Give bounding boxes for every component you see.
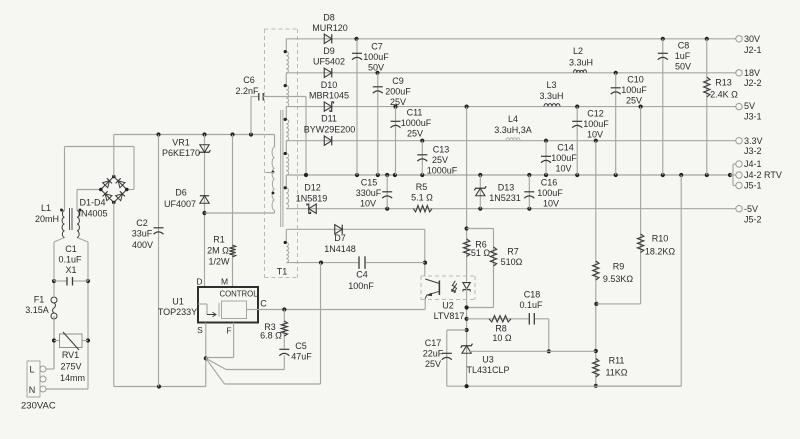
svg-text:3.3uH: 3.3uH xyxy=(569,58,593,68)
svg-text:S: S xyxy=(197,325,203,335)
svg-text:14mm: 14mm xyxy=(60,373,85,383)
svg-text:1N4148: 1N4148 xyxy=(324,244,356,254)
svg-text:RV1: RV1 xyxy=(62,350,79,360)
svg-text:25V: 25V xyxy=(390,97,406,107)
svg-text:0.1uF: 0.1uF xyxy=(58,255,82,265)
svg-text:C2: C2 xyxy=(136,218,148,228)
svg-text:LTV817: LTV817 xyxy=(434,311,465,321)
svg-text:J2-2: J2-2 xyxy=(744,78,762,88)
svg-text:D11: D11 xyxy=(321,114,337,124)
svg-text:9.53KΩ: 9.53KΩ xyxy=(603,274,634,284)
svg-text:C15: C15 xyxy=(361,178,378,188)
svg-text:100uF: 100uF xyxy=(363,52,389,62)
svg-text:L: L xyxy=(29,365,34,375)
svg-text:L3: L3 xyxy=(546,80,556,90)
svg-text:D9: D9 xyxy=(323,46,335,56)
svg-text:C11: C11 xyxy=(407,108,423,118)
svg-text:10V: 10V xyxy=(555,164,571,174)
svg-text:100uF: 100uF xyxy=(621,85,647,95)
svg-text:5.1 Ω: 5.1 Ω xyxy=(411,193,433,203)
svg-text:C13: C13 xyxy=(433,145,450,155)
svg-text:C16: C16 xyxy=(541,178,558,188)
svg-text:100uF: 100uF xyxy=(583,119,609,129)
svg-text:UF5402: UF5402 xyxy=(313,57,345,67)
svg-text:MUR120: MUR120 xyxy=(312,23,348,33)
svg-text:R5: R5 xyxy=(416,182,428,192)
svg-text:11KΩ: 11KΩ xyxy=(605,368,627,378)
svg-text:D13: D13 xyxy=(498,183,515,193)
svg-text:L2: L2 xyxy=(573,46,583,56)
svg-text:J4-1: J4-1 xyxy=(744,159,762,169)
svg-text:10V: 10V xyxy=(587,130,603,140)
svg-text:30V: 30V xyxy=(744,34,760,44)
svg-text:1N5819: 1N5819 xyxy=(296,194,328,204)
svg-text:-5V: -5V xyxy=(744,204,758,214)
svg-text:C18: C18 xyxy=(524,290,541,300)
svg-text:51 Ω: 51 Ω xyxy=(471,248,491,258)
svg-text:1000uF: 1000uF xyxy=(427,166,458,176)
svg-text:C9: C9 xyxy=(392,76,404,86)
svg-text:BYW29E200: BYW29E200 xyxy=(304,125,356,135)
svg-text:275V: 275V xyxy=(60,362,81,372)
svg-text:R9: R9 xyxy=(613,262,625,272)
svg-text:18V: 18V xyxy=(744,68,760,78)
svg-text:TL431CLP: TL431CLP xyxy=(466,365,509,375)
svg-text:L4: L4 xyxy=(508,114,518,124)
svg-text:100uF: 100uF xyxy=(537,188,563,198)
svg-text:18.2KΩ: 18.2KΩ xyxy=(645,247,676,257)
svg-text:D7: D7 xyxy=(334,233,346,243)
svg-text:50V: 50V xyxy=(675,62,691,72)
svg-text:IN4005: IN4005 xyxy=(78,209,107,219)
svg-text:R10: R10 xyxy=(652,234,669,244)
svg-text:F1: F1 xyxy=(34,295,45,305)
svg-text:0.1uF: 0.1uF xyxy=(519,300,543,310)
svg-text:D12: D12 xyxy=(304,183,321,193)
svg-text:C8: C8 xyxy=(678,41,690,51)
svg-text:3.15A: 3.15A xyxy=(25,305,49,315)
svg-text:T1: T1 xyxy=(277,267,288,277)
svg-text:X1: X1 xyxy=(65,265,76,275)
svg-text:TOP233Y: TOP233Y xyxy=(158,307,197,317)
svg-text:J2-1: J2-1 xyxy=(744,45,762,55)
svg-text:3.3uH,3A: 3.3uH,3A xyxy=(494,125,532,135)
svg-text:N: N xyxy=(29,385,36,395)
svg-text:P6KE170: P6KE170 xyxy=(162,148,200,158)
svg-text:J3-1: J3-1 xyxy=(744,112,762,122)
svg-text:100uF: 100uF xyxy=(551,153,577,163)
svg-text:100nF: 100nF xyxy=(348,281,374,291)
svg-text:C6: C6 xyxy=(243,75,255,85)
svg-text:10 Ω: 10 Ω xyxy=(492,333,512,343)
svg-text:R11: R11 xyxy=(609,356,625,366)
svg-text:C7: C7 xyxy=(371,42,383,52)
svg-text:3.3V: 3.3V xyxy=(744,136,763,146)
svg-text:D6: D6 xyxy=(175,188,187,198)
svg-text:6.8 Ω: 6.8 Ω xyxy=(260,331,282,341)
svg-text:R7: R7 xyxy=(507,247,519,257)
svg-text:M: M xyxy=(221,277,228,287)
svg-text:2.2nF: 2.2nF xyxy=(235,86,259,96)
svg-text:400V: 400V xyxy=(132,240,153,250)
svg-text:C10: C10 xyxy=(627,75,644,85)
svg-text:10V: 10V xyxy=(360,199,376,209)
svg-text:C1: C1 xyxy=(65,244,77,254)
svg-text:D10: D10 xyxy=(321,80,338,90)
svg-text:22uF: 22uF xyxy=(423,349,444,359)
svg-text:C17: C17 xyxy=(425,338,442,348)
svg-text:C14: C14 xyxy=(557,143,574,153)
svg-text:25V: 25V xyxy=(626,96,642,106)
svg-text:L1: L1 xyxy=(41,203,51,213)
svg-text:F: F xyxy=(226,326,231,336)
svg-text:330uF: 330uF xyxy=(356,188,382,198)
svg-text:MBR1045: MBR1045 xyxy=(309,91,349,101)
svg-text:25V: 25V xyxy=(407,129,423,139)
svg-text:25V: 25V xyxy=(432,155,448,165)
svg-text:U1: U1 xyxy=(172,297,184,307)
svg-text:C5: C5 xyxy=(295,341,307,351)
svg-text:J5-2: J5-2 xyxy=(744,215,762,225)
svg-text:47uF: 47uF xyxy=(291,352,312,362)
svg-text:1uF: 1uF xyxy=(675,51,691,61)
svg-text:25V: 25V xyxy=(425,359,441,369)
svg-text:D1-D4: D1-D4 xyxy=(79,198,105,208)
svg-text:5V: 5V xyxy=(744,101,755,111)
svg-text:UF4007: UF4007 xyxy=(164,199,196,209)
svg-text:3.3uH: 3.3uH xyxy=(539,91,563,101)
svg-text:1/2W: 1/2W xyxy=(208,257,230,267)
svg-text:C12: C12 xyxy=(587,109,604,119)
svg-text:R8: R8 xyxy=(495,324,507,334)
svg-text:D: D xyxy=(196,277,202,287)
svg-text:R13: R13 xyxy=(715,78,732,88)
svg-text:C4: C4 xyxy=(356,270,368,280)
svg-text:33uF: 33uF xyxy=(132,229,153,239)
svg-text:10V: 10V xyxy=(543,199,559,209)
svg-text:R1: R1 xyxy=(213,235,225,245)
svg-text:2.4K Ω: 2.4K Ω xyxy=(710,90,738,100)
svg-text:1N5231: 1N5231 xyxy=(489,193,521,203)
svg-text:20mH: 20mH xyxy=(35,214,59,224)
svg-text:CONTROL: CONTROL xyxy=(219,290,258,299)
svg-text:U3: U3 xyxy=(482,355,494,365)
svg-text:J5-1: J5-1 xyxy=(744,181,762,191)
svg-text:200uF: 200uF xyxy=(385,87,411,97)
svg-text:230VAC: 230VAC xyxy=(21,401,56,412)
svg-text:C: C xyxy=(260,299,267,309)
svg-text:D8: D8 xyxy=(323,13,335,23)
svg-text:1000uF: 1000uF xyxy=(401,118,432,128)
svg-text:VR1: VR1 xyxy=(172,138,190,148)
svg-text:U2: U2 xyxy=(442,301,454,311)
svg-text:J4-2 RTV: J4-2 RTV xyxy=(744,170,782,180)
svg-text:50V: 50V xyxy=(368,63,384,73)
svg-text:J3-2: J3-2 xyxy=(744,146,762,156)
svg-text:510Ω: 510Ω xyxy=(501,257,523,267)
svg-text:2M Ω: 2M Ω xyxy=(207,246,229,256)
